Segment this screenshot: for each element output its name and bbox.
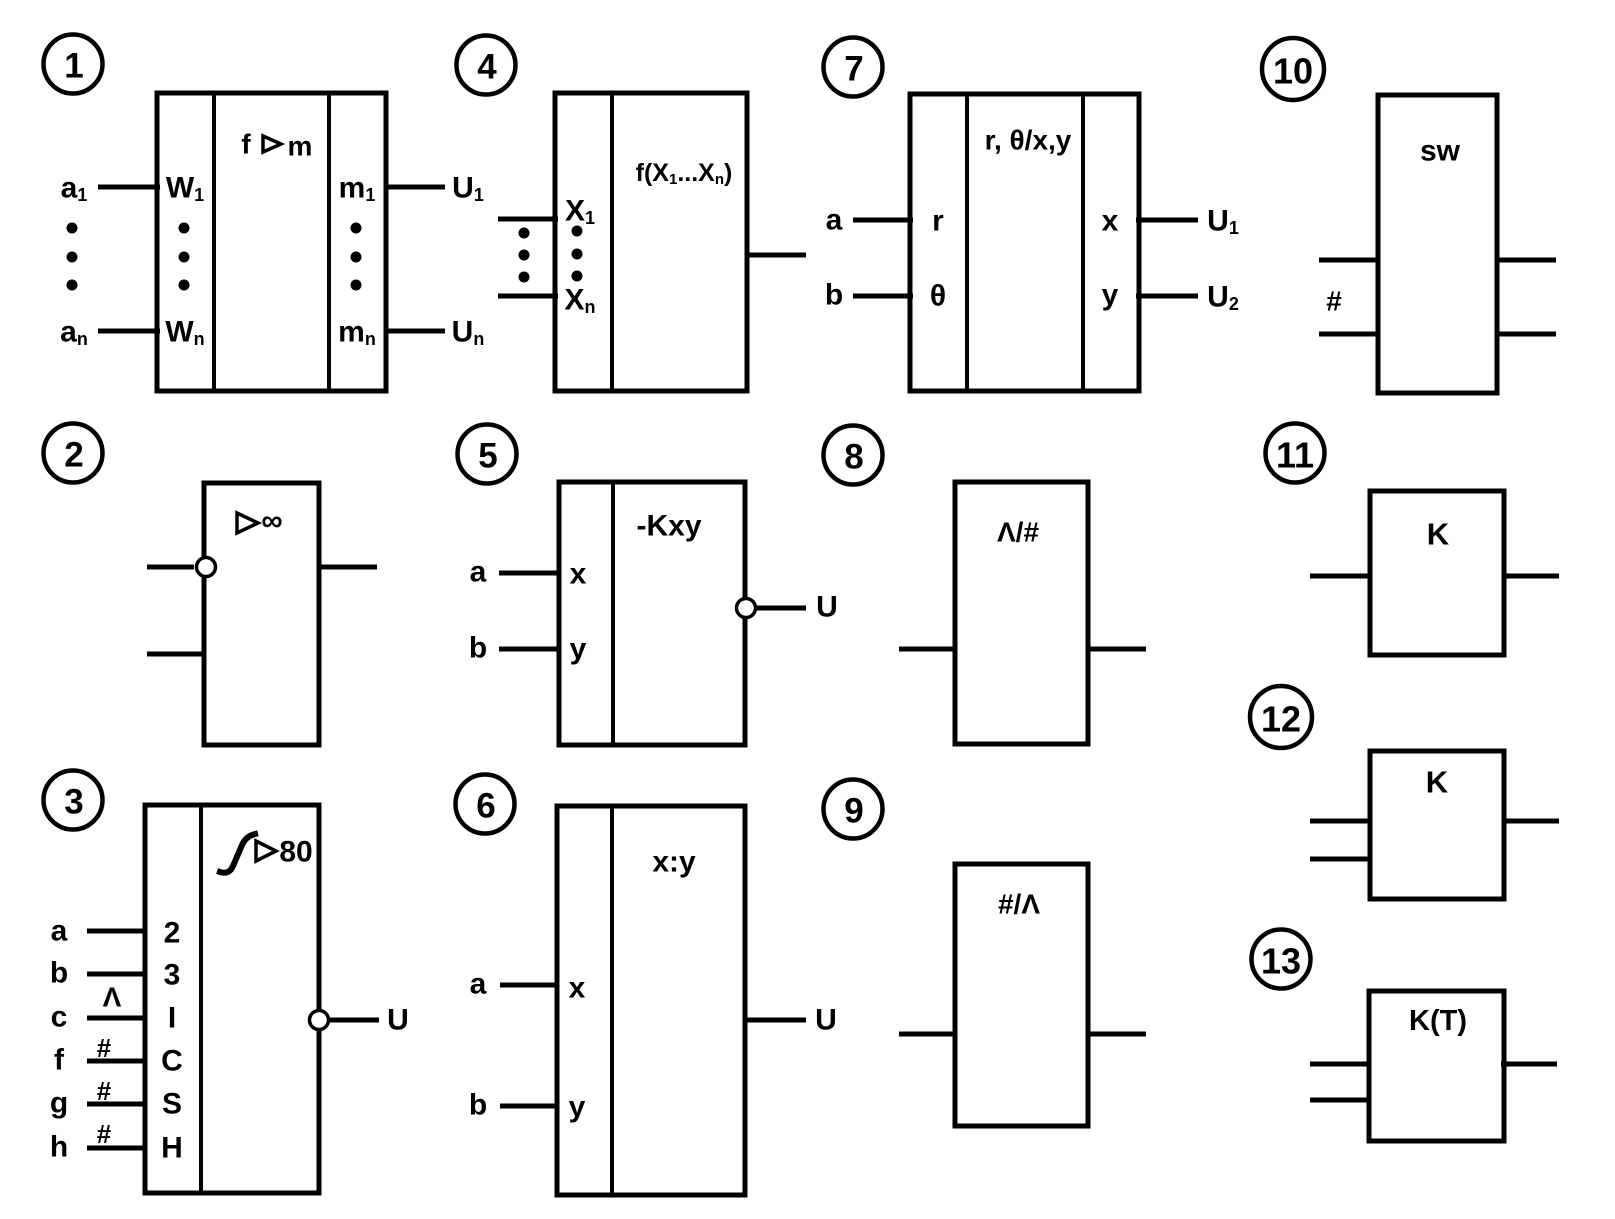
input wire a of block 7: [853, 218, 913, 223]
block 8 input wire: [899, 647, 957, 652]
block 5 section divider: [611, 482, 615, 745]
block 6 output wire: [743, 1018, 806, 1023]
block 13 body outline: [1369, 991, 1504, 1141]
block 8 body outline: [955, 482, 1088, 744]
ellipsis dots input column: [67, 223, 78, 291]
output wire U1 of block 7: [1136, 218, 1198, 223]
svg-text:#/Λ: #/Λ: [998, 889, 1040, 920]
block 2 lower input wire: [147, 652, 206, 657]
input wire X1: [498, 217, 558, 222]
svg-text:c: c: [51, 1001, 68, 1034]
symbol index circle 9: [824, 780, 883, 839]
svg-text:Λ: Λ: [103, 982, 122, 1013]
symbol index circle 10: [1262, 38, 1324, 100]
block 13 lower input wire: [1310, 1098, 1371, 1103]
block 6 body outline: [557, 806, 745, 1195]
svg-text:b: b: [825, 279, 843, 312]
block 1 function label f-amp-m: [241, 129, 312, 162]
symbol index circle 6: [456, 775, 515, 834]
svg-text:f: f: [54, 1044, 65, 1077]
svg-text:∞: ∞: [261, 505, 282, 538]
input wire an: [98, 329, 160, 334]
block 3 section divider: [199, 805, 203, 1193]
svg-text:a: a: [826, 204, 843, 237]
svg-text:3: 3: [164, 959, 181, 992]
block 9 output wire: [1086, 1032, 1146, 1037]
svg-text:11: 11: [1276, 435, 1314, 476]
block 13 upper input wire: [1310, 1062, 1371, 1067]
block 3 function label integral-amp-80: [220, 834, 313, 873]
block 2 input negation bubble: [197, 558, 216, 577]
svg-text:9: 9: [844, 792, 863, 831]
input wire b of block 6: [500, 1104, 559, 1109]
svg-text:H: H: [161, 1132, 183, 1165]
svg-text:1: 1: [64, 47, 83, 86]
svg-text:U: U: [815, 1004, 837, 1037]
svg-text:#: #: [97, 1119, 112, 1149]
block 11 output wire: [1502, 574, 1559, 579]
svg-text:3: 3: [64, 783, 83, 822]
svg-text:K(T): K(T): [1409, 1005, 1467, 1037]
input wire a1: [98, 185, 160, 190]
block 10 upper input wire: [1319, 258, 1380, 263]
block 2 inverting input wire: [147, 565, 194, 570]
block 10 body outline: [1378, 95, 1497, 393]
block 8 output wire: [1086, 647, 1146, 652]
output wire Un of block 1: [384, 329, 445, 334]
svg-text:I: I: [168, 1002, 176, 1035]
block 9 body outline: [955, 864, 1088, 1126]
ellipsis dots inside left section: [572, 226, 583, 282]
svg-text:x:y: x:y: [652, 846, 696, 879]
svg-text:a: a: [470, 556, 487, 589]
block 9 input wire: [899, 1032, 957, 1037]
svg-text:x: x: [569, 972, 586, 1005]
output wire U1 of block 1: [384, 185, 445, 190]
output wire U2 of block 7: [1136, 294, 1198, 299]
input wire c of block 3: [87, 1016, 147, 1021]
svg-text:y: y: [569, 1091, 586, 1124]
svg-text:S: S: [162, 1088, 182, 1121]
input wire h of block 3: [87, 1146, 147, 1151]
svg-text:U: U: [816, 591, 838, 624]
svg-text:2: 2: [164, 917, 181, 950]
svg-text:K: K: [1426, 765, 1449, 800]
svg-text:x: x: [570, 558, 587, 591]
symbol index circle 5: [458, 425, 517, 484]
svg-text:a: a: [470, 968, 487, 1001]
svg-text:b: b: [469, 1089, 487, 1122]
block 1 right section divider: [327, 93, 331, 391]
svg-text:K: K: [1427, 517, 1450, 552]
symbol index circle 1: [44, 35, 103, 94]
block 3 body outline: [145, 805, 319, 1193]
block 3 output negation bubble: [310, 1011, 329, 1030]
block 5 output wire: [756, 606, 806, 611]
block 4 body outline: [555, 93, 747, 391]
block 4 section divider: [610, 93, 614, 391]
input wire b of block 3: [87, 972, 147, 977]
svg-text:-Kxy: -Kxy: [636, 510, 701, 543]
block 12 output wire: [1502, 819, 1559, 824]
block 7 body outline: [910, 94, 1139, 391]
input wire a of block 6: [500, 983, 559, 988]
input wire a of block 5: [499, 571, 561, 576]
svg-text:80: 80: [279, 836, 312, 869]
svg-text:h: h: [50, 1131, 68, 1164]
block 12 body outline: [1370, 751, 1504, 899]
symbol index circle 7: [824, 38, 883, 97]
svg-text:#: #: [97, 1033, 112, 1063]
output wire of block 4: [745, 253, 806, 258]
svg-text:sw: sw: [1420, 135, 1461, 168]
svg-text:#: #: [1326, 286, 1342, 317]
svg-text:r, θ/x,y: r, θ/x,y: [985, 125, 1072, 156]
svg-text:y: y: [570, 633, 587, 666]
block 10 lower input wire: [1319, 332, 1380, 337]
input wire g of block 3: [87, 1102, 147, 1107]
input wire Xn: [498, 294, 558, 299]
block 3 output wire: [329, 1018, 379, 1023]
block 13 output wire: [1501, 1062, 1557, 1067]
input wire b of block 7: [853, 294, 913, 299]
block 6 section divider: [610, 806, 614, 1195]
ellipsis dots outside inputs: [519, 228, 530, 283]
block 12 upper input wire: [1310, 819, 1372, 824]
block 1 left section divider: [212, 93, 216, 391]
block 7 left section divider: [965, 94, 969, 391]
svg-text:5: 5: [478, 437, 497, 476]
svg-text:#: #: [97, 1076, 112, 1106]
svg-text:θ: θ: [930, 280, 946, 313]
svg-text:b: b: [50, 957, 68, 990]
svg-text:2: 2: [64, 436, 83, 475]
input wire f of block 3: [87, 1059, 147, 1064]
symbol index circle 13: [1252, 930, 1311, 989]
svg-text:6: 6: [476, 787, 495, 826]
symbol index circle 11: [1266, 424, 1325, 483]
svg-text:a: a: [51, 915, 68, 948]
svg-text:U: U: [387, 1004, 409, 1037]
block 11 body outline: [1370, 491, 1504, 655]
svg-text:10: 10: [1273, 51, 1313, 92]
svg-text:x: x: [1102, 205, 1119, 238]
svg-text:f: f: [241, 129, 251, 160]
block 1 body outline: [157, 93, 386, 391]
svg-text:g: g: [50, 1087, 68, 1120]
ellipsis dots W column: [179, 223, 190, 291]
input wire b of block 5: [499, 647, 561, 652]
block 2 function label amp-infinity: [237, 505, 283, 538]
svg-text:m: m: [288, 131, 313, 162]
svg-text:Λ/#: Λ/#: [997, 517, 1039, 548]
svg-text:4: 4: [477, 48, 497, 87]
svg-text:r: r: [932, 205, 944, 238]
block 5 body outline: [559, 482, 745, 745]
block 10 lower output wire: [1495, 332, 1556, 337]
input wire a of block 3: [87, 929, 147, 934]
symbol index circle 2: [44, 424, 103, 483]
svg-text:8: 8: [844, 438, 863, 477]
svg-text:b: b: [469, 632, 487, 665]
symbol index circle 8: [824, 426, 883, 485]
svg-text:12: 12: [1261, 699, 1301, 740]
ellipsis dots m column: [351, 223, 362, 291]
symbol index circle 3: [44, 771, 103, 830]
block 7 right section divider: [1081, 94, 1085, 391]
symbol index circle 4: [457, 36, 516, 95]
block 11 input wire: [1310, 574, 1372, 579]
block 2 body outline: [204, 483, 319, 745]
block 10 upper output wire: [1495, 258, 1556, 263]
block 12 lower input wire: [1310, 857, 1372, 862]
block 5 output negation bubble: [737, 599, 756, 618]
svg-text:C: C: [161, 1045, 183, 1078]
symbol index circle 12: [1250, 686, 1312, 748]
svg-text:y: y: [1102, 279, 1119, 312]
svg-text:13: 13: [1261, 941, 1301, 982]
block 2 output wire: [317, 565, 377, 570]
svg-text:7: 7: [844, 50, 863, 89]
